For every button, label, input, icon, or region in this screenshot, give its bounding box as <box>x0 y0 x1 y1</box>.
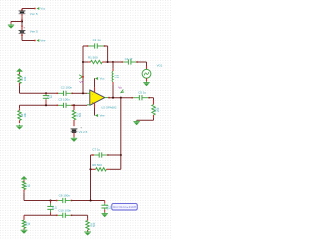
ground (supply) <box>10 24 12 25</box>
wire lower run <box>20 104 59 106</box>
wire feedback left rail <box>90 155 92 201</box>
wire to ground tap <box>11 21 22 23</box>
svg-text:R1 500: R1 500 <box>88 55 98 59</box>
capacitor C6 (vertical) <box>45 93 47 94</box>
inductor L1 <box>112 62 114 69</box>
resistor R8 <box>23 215 25 220</box>
svg-text:10k: 10k <box>23 76 27 81</box>
wire run2 <box>24 214 58 216</box>
wire run2 corner to R9 <box>87 215 89 218</box>
node C6 bottom junction <box>45 104 47 106</box>
svg-text:Vcc: Vcc <box>100 77 105 81</box>
op-amp output pin <box>105 97 109 99</box>
resistor R1 <box>83 61 88 63</box>
svg-text:Vcc 5: Vcc 5 <box>30 12 38 16</box>
net flag Vee (op-amp) <box>95 114 98 117</box>
net flag Vcc arrow (R7 top) <box>21 176 27 179</box>
svg-text:Cin=Ccm+Cdiff: Cin=Ccm+Cdiff <box>113 205 136 209</box>
junction mid supply <box>21 20 23 22</box>
wire left rail (VS node) <box>82 46 84 93</box>
capacitor C1 <box>83 45 89 47</box>
svg-text:VS: VS <box>79 80 83 84</box>
svg-text:C7 1u: C7 1u <box>92 147 100 151</box>
battery Vee 5 <box>21 28 23 31</box>
net flag Vee arrow (R4 bottom) <box>19 125 21 126</box>
wire R7 to run1 <box>23 192 25 200</box>
battery Vcc 5 <box>21 9 23 11</box>
net flag Vcc (power) <box>34 8 36 10</box>
capacitor C7 <box>91 154 94 156</box>
wire right rail C1 <box>107 46 109 62</box>
wire C4 to VG1 <box>137 61 147 63</box>
ground (R10) <box>136 120 138 121</box>
capacitor C9 (vertical) <box>50 201 52 204</box>
resistor R7 <box>23 180 25 182</box>
svg-text:500: 500 <box>92 222 96 227</box>
ground (V1) <box>73 137 75 138</box>
svg-text:U2 OPA682: U2 OPA682 <box>101 106 117 110</box>
op-amp V- pin wire <box>94 103 96 108</box>
wire run1 right <box>71 200 105 202</box>
wire R10 to ground <box>153 118 155 120</box>
annotation box <box>112 204 137 210</box>
net flag Vee arrow (R9 bottom) <box>87 231 89 232</box>
resistor R9 <box>87 219 89 221</box>
wire Vcc top rail <box>22 8 35 10</box>
op-amp U2 OPA682 <box>90 90 105 105</box>
svg-text:10k: 10k <box>23 112 27 117</box>
svg-text:C5 1u: C5 1u <box>138 91 146 95</box>
svg-text:200: 200 <box>156 107 160 112</box>
svg-text:VG1: VG1 <box>157 64 163 68</box>
ground (C11) <box>104 212 106 213</box>
wire C3 to op-amp <box>72 104 87 106</box>
grid dots <box>0 0 171 240</box>
svg-text:+: + <box>92 101 94 105</box>
wire R3 to node <box>19 86 21 94</box>
node C9 top <box>49 199 51 201</box>
svg-text:1T: 1T <box>116 74 120 77</box>
net flag Vee (power) <box>34 40 36 42</box>
wire Vo down rail <box>120 98 122 170</box>
resistor R3 <box>19 72 21 74</box>
net flag Vcc (op-amp) <box>95 77 98 80</box>
wire Vee bottom rail <box>21 36 23 40</box>
ground (VG1) <box>146 81 148 82</box>
svg-text:Vcc: Vcc <box>40 7 45 11</box>
svg-text:-: - <box>92 93 93 97</box>
net flag Vcc arrow (R3 top) <box>17 68 23 71</box>
wire battery middle <box>21 16 23 27</box>
node L1 junction <box>112 61 114 63</box>
op-amp V+ pin wire <box>94 87 96 92</box>
node VS rail junction <box>82 92 84 94</box>
wire C2 to op-amp <box>72 92 87 94</box>
net flag VS <box>79 75 82 79</box>
wire to C4 <box>113 61 122 63</box>
svg-text:Vee 5: Vee 5 <box>30 30 38 34</box>
svg-text:V1 2.5: V1 2.5 <box>79 130 88 134</box>
wire R4 top <box>19 105 21 108</box>
node R1/C1 junction <box>82 61 84 63</box>
svg-text:C2 100n: C2 100n <box>61 85 73 89</box>
svg-text:C1 1u: C1 1u <box>93 38 101 42</box>
resistor R4 <box>19 108 21 110</box>
wire output <box>109 97 133 99</box>
svg-text:Vo: Vo <box>118 85 122 89</box>
svg-text:C8 100n: C8 100n <box>59 194 71 198</box>
capacitor C11 (vertical, to ground) <box>104 201 106 204</box>
svg-text:Vee: Vee <box>100 114 105 118</box>
svg-text:C3 100n: C3 100n <box>58 97 70 101</box>
svg-text:C10 100n: C10 100n <box>58 209 71 213</box>
source VG1 <box>142 69 151 78</box>
svg-text:500: 500 <box>78 112 82 117</box>
node R2 junction <box>73 104 75 106</box>
wire C5 to R10 <box>149 97 154 99</box>
node C6 top junction <box>45 92 47 94</box>
svg-text:R6 500: R6 500 <box>92 163 102 167</box>
resistor R2 <box>73 105 75 110</box>
net flag Vee arrow (R8 bottom) <box>23 229 25 230</box>
resistor R6 <box>91 168 93 170</box>
resistor R10 <box>153 100 155 105</box>
svg-text:Vee: Vee <box>40 39 45 43</box>
